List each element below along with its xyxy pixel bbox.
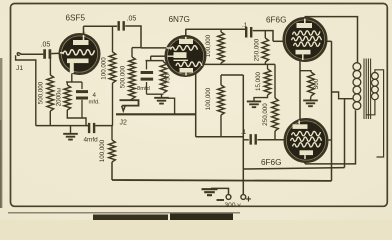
bottom figure block 1 <box>93 215 168 221</box>
ground G3 chassis (divider) <box>247 101 261 107</box>
wire R4 bottom to B+ bus <box>111 162 113 180</box>
svg-text:100,000: 100,000 <box>99 139 106 162</box>
6F6G2 cathode <box>293 124 308 129</box>
wire R7 top tap <box>220 29 222 32</box>
wire plate 1 to primary top <box>305 17 358 63</box>
wire ground line right of C5 to node <box>95 125 113 127</box>
jack J2 tip spring <box>122 106 126 111</box>
svg-text:6SF5: 6SF5 <box>66 14 86 23</box>
wire C3 out to 6F6G1 grid drop <box>253 31 273 42</box>
wire cathode tap to R12 <box>300 71 311 72</box>
capacitor C7 8mfd electrolytic (6N7G cathode) <box>141 73 154 80</box>
wire R8 bottom lead <box>220 115 222 137</box>
wire R10 bottom to ground <box>254 95 268 101</box>
wire C7 bottom lead <box>146 82 148 94</box>
resistor R6 750 (6N7G cathode) <box>160 62 167 93</box>
wire R6 top <box>163 61 165 62</box>
wire R8 top lead <box>220 75 222 85</box>
wire C4 out to 6F6G2 grid <box>257 139 284 141</box>
svg-text:.1: .1 <box>242 22 248 29</box>
wire B+ to center tap run <box>243 168 344 169</box>
wire node down to R4 <box>111 126 113 140</box>
wire 6N7G plate 1 up <box>185 29 187 37</box>
capacitor C2 .05 interstage <box>119 21 124 31</box>
wire B+ riser to C4 <box>243 139 249 141</box>
wire R3 bottom to node <box>112 83 114 126</box>
6F6G1 grids <box>293 31 321 35</box>
6N7G plate 1 <box>179 39 193 44</box>
svg-text:250,000: 250,000 <box>262 103 269 126</box>
6SF5 plate <box>73 40 89 45</box>
wire plate 2 to primary bottom <box>305 110 356 164</box>
svg-text:6F6G: 6F6G <box>261 158 281 167</box>
wire 6F6G2 screen to riser <box>328 139 332 141</box>
wire to 6F6G1 grid <box>273 40 284 42</box>
resistor R10 15,000 (divider) <box>264 69 271 95</box>
wire secondary top lead <box>375 70 384 157</box>
svg-text:250,000: 250,000 <box>254 38 261 61</box>
wire J1 tip to C1 <box>21 53 44 55</box>
wire C6 bottom lead <box>81 100 83 118</box>
svg-text:500,000: 500,000 <box>119 65 126 88</box>
terminal plus circle <box>241 195 246 200</box>
svg-text:100,000: 100,000 <box>101 57 108 80</box>
wire 6F6G2 plate down <box>304 162 306 164</box>
capacitor C4 .1 coupling bottom <box>251 134 256 145</box>
wire 6SF5 plate up <box>83 26 85 35</box>
svg-text:100,000: 100,000 <box>205 87 212 110</box>
wire to ground G2 <box>161 94 163 97</box>
resistor R5 500,000 (6N7G grid leak) <box>129 57 136 99</box>
6N7G cathode block <box>174 52 187 58</box>
wire center tap riser down <box>344 99 346 168</box>
tube V4 6F6G bottom envelope <box>285 119 328 162</box>
capacitor C1 .05 input <box>45 49 50 59</box>
wire C7 top lead <box>146 61 148 70</box>
wire C2 out down to node <box>125 26 141 48</box>
wire R3 top lead <box>112 26 114 52</box>
wire R12 bottom <box>310 96 313 100</box>
svg-text:mfd.: mfd. <box>89 100 101 106</box>
wire secondary bottom lead <box>366 100 375 115</box>
wire across to B+ riser <box>196 136 244 138</box>
resistor R8 100,000 (6N7G plate 2) <box>218 85 225 115</box>
wire grid node down to R1 <box>49 57 51 75</box>
ground G2 chassis (6N7G cathode) <box>154 98 169 104</box>
wire R6/C7 bottoms joined <box>147 93 164 95</box>
svg-text:.05: .05 <box>127 16 137 23</box>
wire B+ bus <box>112 179 332 182</box>
svg-text:4: 4 <box>93 92 97 99</box>
wire minus terminal to ground <box>211 188 229 194</box>
scan speck <box>82 31 85 34</box>
scan edge smudge left <box>0 58 2 208</box>
capacitor C5 4mfd decoupling <box>89 123 94 133</box>
resistor R9 250,000 (6F6G 1 grid) <box>262 38 269 62</box>
terminal minus circle <box>226 195 231 200</box>
capacitor C3 .1 coupling top <box>246 27 251 38</box>
wire R1 bottom to ground line <box>49 111 51 126</box>
wire cathode node bar <box>66 81 82 83</box>
jack J2 flag contact <box>130 99 132 100</box>
wire R9 top tap <box>264 31 266 38</box>
wire primary center tap <box>345 98 353 100</box>
6N7G plate 2 <box>180 68 194 73</box>
resistor R1 500,000 (6SF5 grid) <box>47 75 54 111</box>
wire R11 long top lead <box>274 64 276 98</box>
wire R8 top to B+ riser <box>221 74 243 76</box>
6N7G grid 2 <box>176 62 202 66</box>
resistor R3 100,000 (6SF5 plate load) <box>109 52 116 83</box>
wire B+ riser <box>242 75 244 194</box>
wire C1 to 6SF5 grid <box>51 52 60 54</box>
svg-text:+: + <box>246 194 252 205</box>
wire R9 bottom to Y line <box>264 62 266 64</box>
wire cathode rail <box>146 60 164 62</box>
svg-text:8mfd: 8mfd <box>137 86 150 92</box>
ground G5 chassis (minus terminal) <box>202 189 218 195</box>
wire plate 1 run to C3 <box>186 28 246 30</box>
wire to C6 top <box>81 82 83 89</box>
wire 6N7G cathode out left <box>151 55 166 57</box>
svg-text:J1: J1 <box>16 65 23 72</box>
wire 6F6G1 screen to riser <box>327 40 332 42</box>
wire R11 bottom to grid line <box>274 131 276 140</box>
wire plate node to C2 <box>84 25 118 27</box>
transformer T1 primary winding <box>353 63 361 71</box>
6F6G1 plate <box>297 23 313 28</box>
svg-text:J2: J2 <box>120 120 128 127</box>
wire 6SF5 cathode down <box>71 74 73 82</box>
wire 6F6G1 plate up <box>304 17 306 19</box>
transformer T1 core <box>364 59 371 120</box>
6F6G1 cathode <box>296 50 311 55</box>
svg-text:15,000: 15,000 <box>255 71 262 90</box>
wire 6N7G bottom lead down <box>195 73 197 137</box>
svg-text:4mfd: 4mfd <box>84 137 99 144</box>
capacitor C6 4mfd electrolytic (6SF5 cathode bypass) <box>76 92 88 98</box>
wire Y line (grid 2 / divider) <box>204 63 275 65</box>
wire ground to J2 sleeve <box>168 98 175 114</box>
resistor R11 250,000 (6F6G 2 grid) <box>272 98 279 131</box>
ground G1 chassis under 6SF5 <box>70 126 72 134</box>
wire screens riser <box>331 41 333 181</box>
6F6G2 grids <box>292 131 321 135</box>
resistor R7 100,000 (6N7G plate 1) <box>218 32 225 63</box>
bottom figure block 2 <box>170 214 233 221</box>
wire J1 sleeve down to ground line <box>16 55 36 125</box>
label minus sign <box>217 199 225 201</box>
svg-text:300 v: 300 v <box>225 202 242 209</box>
resistor R12 300 (6F6G cathode) <box>308 72 315 96</box>
svg-text:6N7G: 6N7G <box>169 15 190 24</box>
wire to 6N7G grid 1 <box>141 47 166 49</box>
wire J2 sleeve line <box>116 113 196 115</box>
svg-text:.05: .05 <box>41 42 51 49</box>
wire R5 top lead <box>131 48 133 57</box>
svg-text:6F6G: 6F6G <box>266 16 286 25</box>
6N7G grid 1 <box>171 46 198 50</box>
tube V1 6SF5 envelope <box>60 34 100 74</box>
6SF5 grid <box>63 50 95 55</box>
wire R10 top <box>267 64 269 69</box>
ground G4 chassis (6F6G cathode) <box>303 100 318 106</box>
resistor R2 2000 ohm (6SF5 cathode) <box>64 85 71 110</box>
bottom page artifact line <box>8 212 240 214</box>
tube V3 6F6G top envelope <box>284 18 327 61</box>
wire ground line left segment <box>36 125 88 127</box>
resistor R4 100,000 (decoupling) <box>109 140 116 162</box>
wire shared cathode riser <box>299 61 301 120</box>
transformer T1 secondary winding <box>372 73 379 80</box>
svg-text:2000ω: 2000ω <box>55 88 62 107</box>
wire R2/C6 bottoms to ground line <box>67 110 86 126</box>
jack J1 tip curl <box>17 53 21 56</box>
wire to R2 top <box>66 82 68 85</box>
wire riser jog to center tap <box>332 92 345 99</box>
svg-text:500,000: 500,000 <box>38 81 45 104</box>
6F6G2 plate <box>300 150 314 155</box>
6SF5 cathode <box>67 59 89 64</box>
tube V2 6N7G envelope <box>166 36 206 76</box>
wire node to R5 top <box>132 47 141 49</box>
